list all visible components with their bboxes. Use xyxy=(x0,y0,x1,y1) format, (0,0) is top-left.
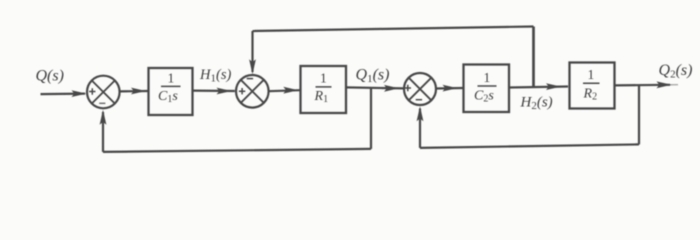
feedback loop 2 vertical up into S3 xyxy=(419,109,421,148)
wire output Q2(s) xyxy=(615,84,671,87)
wire S1 to block C1s xyxy=(120,90,148,93)
arrowhead into block C1s xyxy=(131,88,146,95)
arrowhead up into S3 bottom xyxy=(417,106,424,121)
fraction bar 1/C2s xyxy=(478,85,497,87)
arrowhead down into S2 top xyxy=(249,59,256,74)
wire block C2s to block R2 through tap junction xyxy=(509,87,568,88)
feedback loop 1 bottom horizontal xyxy=(103,149,371,152)
svg-text:Q(s): Q(s) xyxy=(36,68,64,85)
wire block R1 to S3 with node Q1 xyxy=(346,87,404,88)
svg-text:H1(s): H1(s) xyxy=(199,67,231,85)
faint wire tail after output arrowhead xyxy=(670,84,678,86)
fraction bar 1/R2 xyxy=(583,82,600,84)
top feedback loop horizontal xyxy=(253,27,534,32)
block 1/R1 xyxy=(301,66,347,113)
summing junction S1 xyxy=(87,76,120,109)
top feedback loop vertical down to S2 xyxy=(251,31,253,72)
plus sign S3 xyxy=(405,85,411,91)
arrowhead into S2 xyxy=(217,88,232,95)
svg-text:1: 1 xyxy=(588,67,595,82)
fraction bar 1/R1 xyxy=(316,86,332,88)
svg-text:H2(s): H2(s) xyxy=(520,95,553,113)
svg-text:Q1(s): Q1(s) xyxy=(356,67,390,86)
arrowhead into block R2 xyxy=(546,83,561,90)
block 1/C1s xyxy=(149,68,193,115)
minus sign S3 xyxy=(416,99,422,101)
svg-text:1: 1 xyxy=(484,70,491,85)
arrowhead into block R1 xyxy=(283,87,298,94)
feedback loop 2 bottom horizontal xyxy=(420,144,639,148)
block 1/R2 xyxy=(570,63,615,109)
wire S2 to block R1 xyxy=(269,90,300,91)
arrowhead into block C2s xyxy=(443,85,458,92)
node tap to feedback loop 2 xyxy=(638,85,640,144)
feedback loop 1 vertical up into S1 xyxy=(102,112,104,152)
minus sign S1 xyxy=(99,102,105,104)
svg-text:1: 1 xyxy=(320,71,327,86)
arrowhead into S3 xyxy=(384,85,399,92)
wire S3 to block C2s xyxy=(436,87,463,90)
arrowhead output xyxy=(657,81,672,88)
summing junction S3 xyxy=(404,73,436,105)
plus sign S2 xyxy=(239,88,245,94)
node Q1 tap vertical down xyxy=(370,88,372,149)
arrowhead into S1 xyxy=(72,90,87,97)
minus sign S2 xyxy=(247,78,253,80)
plus sign S1 xyxy=(89,88,95,94)
wire input Q(s) xyxy=(41,92,86,95)
block 1/C2s xyxy=(464,65,510,113)
svg-text:Q2(s): Q2(s) xyxy=(659,62,693,81)
fraction bar 1/C1s xyxy=(161,85,181,87)
wire block C1s to S2 xyxy=(193,89,235,92)
summing junction S2 xyxy=(236,75,269,108)
arrowhead up into S1 bottom xyxy=(100,110,107,125)
svg-text:1: 1 xyxy=(168,70,175,85)
top feedback loop: tap junction between C2s and R2 xyxy=(532,27,535,88)
